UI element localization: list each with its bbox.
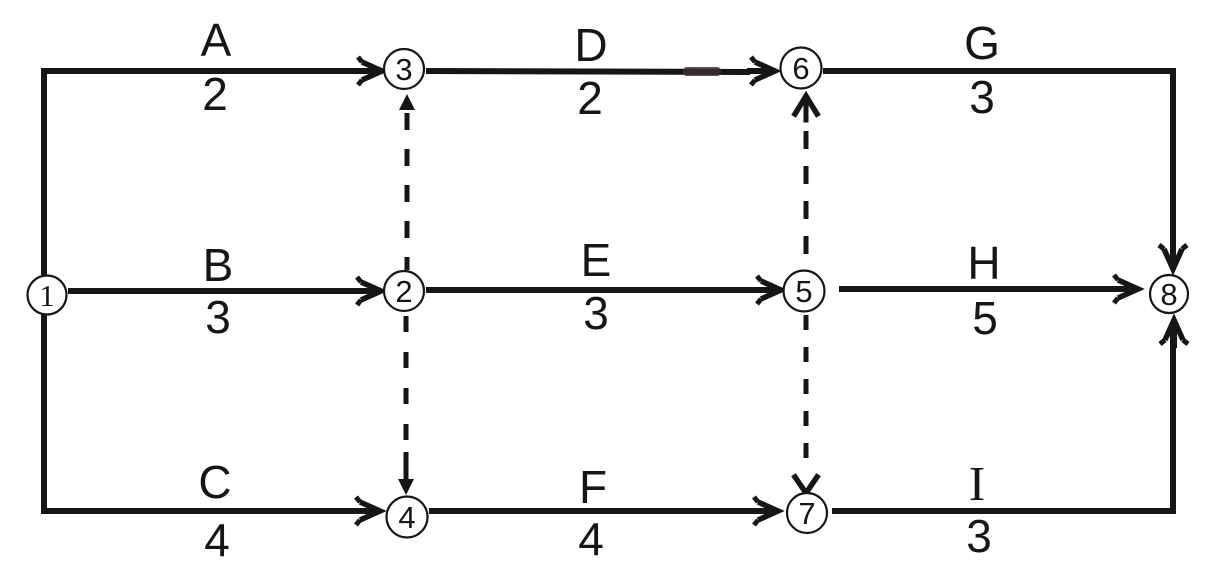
svg-text:1: 1	[39, 278, 55, 313]
dashed wire 5 to 6	[804, 131, 809, 256]
node 4	[387, 497, 428, 538]
svg-text:5: 5	[795, 274, 812, 309]
svg-text:E: E	[581, 234, 612, 286]
arrowhead into node 8 from I (up)	[1160, 320, 1188, 348]
arrowhead into node 8 from H	[1110, 275, 1138, 303]
svg-text:C: C	[198, 456, 231, 508]
svg-text:H: H	[967, 237, 1000, 289]
node 1	[28, 276, 67, 315]
dashed wire 5 to 7	[804, 315, 809, 464]
arrowhead into node 3 (dashed, triangle up)	[399, 94, 415, 110]
smudge artifact on wire D	[683, 67, 721, 76]
svg-text:4: 4	[578, 513, 604, 565]
wire 2 to 5 (activity E)	[426, 287, 756, 293]
svg-text:2: 2	[577, 72, 603, 124]
arrowhead into node 4	[352, 497, 380, 525]
dashed wire 2 to 3	[405, 113, 410, 270]
svg-text:3: 3	[583, 287, 609, 339]
svg-text:4: 4	[204, 514, 230, 566]
svg-text:3: 3	[966, 510, 992, 562]
arrowhead into node 8 from G (down)	[1159, 241, 1187, 269]
svg-text:3: 3	[969, 71, 995, 123]
wire 6 right and down to 8 (activity G)	[823, 71, 1173, 264]
arrowhead into node 5	[753, 276, 781, 304]
svg-text:2: 2	[395, 274, 412, 309]
arrowhead into node 7	[750, 497, 778, 525]
arrowhead into node 4 (dashed, triangle down)	[398, 452, 414, 495]
wire 1 up-right to 3 (activity A)	[44, 71, 356, 275]
wire 3 to 6 (activity D)	[426, 71, 750, 72]
svg-text:5: 5	[972, 292, 998, 344]
svg-text:2: 2	[202, 68, 228, 120]
node 3	[384, 49, 424, 89]
arrowhead into node 3	[354, 57, 382, 85]
svg-text:I: I	[969, 456, 985, 511]
wire 1 to 2 (activity B)	[68, 288, 356, 294]
arrowhead into node 7 (dashed, chevron down)	[795, 477, 817, 493]
svg-text:8: 8	[1160, 277, 1177, 312]
node 6	[781, 48, 822, 89]
arrowhead into node 6 (dashed, chevron up)	[795, 96, 817, 120]
node 8	[1150, 275, 1188, 313]
svg-text:F: F	[579, 461, 607, 513]
wire 4 to 7 (activity F)	[429, 508, 753, 514]
arrowhead into node 2	[353, 277, 381, 305]
wire 5 to 8 (activity H)	[839, 286, 1113, 292]
svg-text:3: 3	[205, 291, 231, 343]
svg-text:4: 4	[398, 500, 415, 535]
svg-text:6: 6	[792, 51, 809, 86]
node 7	[787, 493, 827, 533]
wire 7 right and up to 8 (activity I)	[832, 322, 1173, 511]
arrowhead into node 6	[747, 57, 775, 85]
dashed wire 2 to 4	[404, 316, 409, 452]
svg-text:7: 7	[798, 496, 815, 531]
wire 1 down-right to 4 (activity C)	[44, 315, 355, 511]
svg-text:A: A	[201, 14, 232, 66]
node 2	[384, 271, 424, 311]
svg-text:D: D	[574, 19, 607, 71]
svg-text:3: 3	[395, 52, 412, 87]
node 5	[784, 271, 825, 312]
svg-text:B: B	[203, 239, 234, 291]
svg-text:G: G	[964, 17, 1000, 69]
